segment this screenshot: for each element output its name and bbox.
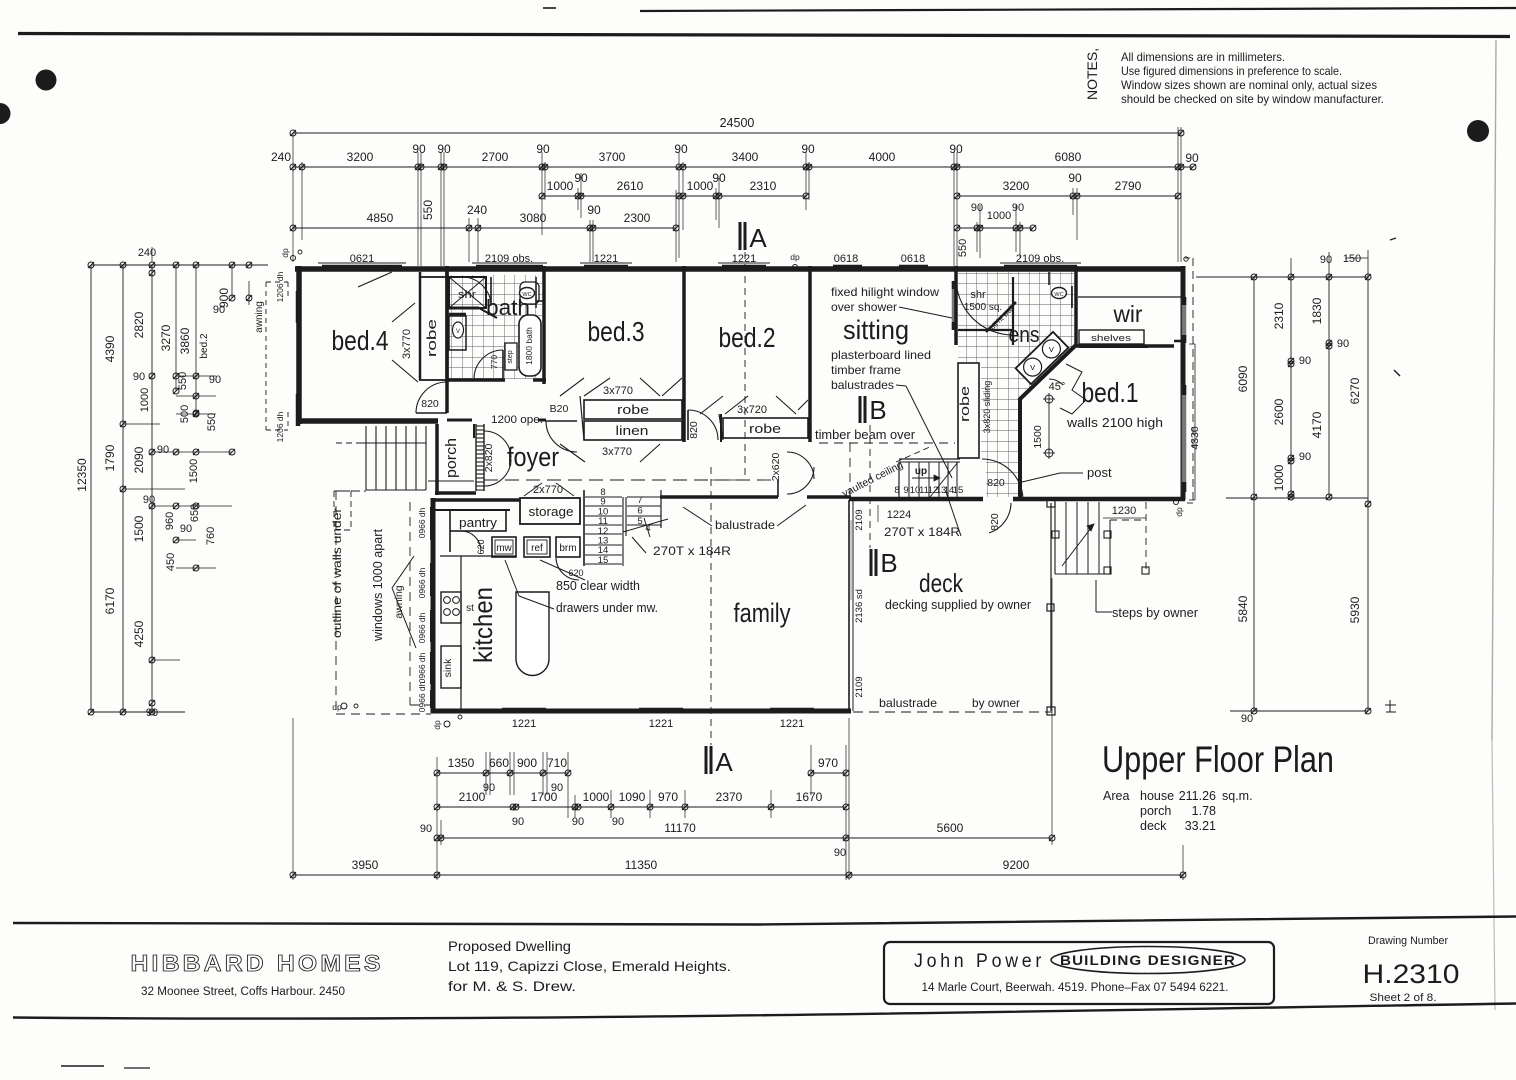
svg-text:A: A [715,747,733,777]
svg-text:1.78: 1.78 [1192,804,1216,818]
pantry [450,510,506,555]
svg-text:2x620: 2x620 [770,453,782,482]
dp top left [280,248,302,260]
deck left wall sliding [849,500,853,711]
svg-text:timber frame: timber frame [831,363,901,377]
svg-text:Sheet 2 of 8.: Sheet 2 of 8. [1370,992,1437,1004]
svg-text:33.21: 33.21 [1185,819,1216,833]
dim row3 left 1000/90/2610 + 1000/90/2310 [539,171,809,199]
stair numbers col2 [637,495,650,537]
svg-text:1000: 1000 [687,179,714,193]
svg-text:B: B [869,395,886,425]
title block bottom line [13,1004,1516,1019]
svg-text:V: V [456,329,460,335]
svg-text:3400: 3400 [732,150,759,164]
svg-text:post: post [1087,465,1112,480]
ens shr labels [964,289,1002,313]
right misc marks [1385,238,1400,712]
ens shower screen diagonal [986,302,1016,333]
svg-text:porch: porch [1140,804,1171,818]
interior stairs [584,490,668,566]
svg-text:0966 dh: 0966 dh [417,652,427,683]
svg-text:A: A [749,223,767,253]
balustrade label mid [683,505,806,532]
svg-text:deck: deck [1140,819,1167,833]
bed.4 door 820 [416,382,447,413]
1230 dim steps [1103,505,1146,518]
svg-text:1221: 1221 [649,718,673,730]
svg-text:should be checked on site by w: should be checked on site by window manu… [1121,93,1384,106]
section mark B upper [860,395,887,425]
awning dashed rect [266,282,288,430]
dp right of steps [1174,500,1185,517]
svg-text:90: 90 [971,202,983,214]
svg-text:3x770: 3x770 [603,385,633,397]
270T x 184R label 1 [632,537,731,558]
window 1221 bed.3 [584,265,628,270]
svg-text:robe: robe [617,402,649,417]
wir shelf line [1078,296,1182,298]
svg-text:1200 ope.: 1200 ope. [491,414,543,426]
window 0621 bed.4 [322,265,402,270]
svg-text:3200: 3200 [1003,179,1030,193]
right chain 6090/5840 [1236,274,1257,714]
svg-text:1000: 1000 [583,790,610,804]
svg-text:2310: 2310 [750,179,777,193]
bed.3 3x770 bottom marks [560,444,660,462]
svg-text:V: V [1030,363,1035,372]
bed.3 door B20 [546,403,577,452]
wir shelves box [1079,330,1148,347]
dp top right corner [1184,257,1188,261]
svg-text:2109: 2109 [854,509,865,530]
svg-text:1830: 1830 [1310,297,1324,324]
svg-text:90: 90 [420,823,432,835]
svg-text:bed.2: bed.2 [719,322,776,353]
4330 dim right [1189,344,1201,500]
right paper edge [1492,40,1496,1010]
svg-text:90: 90 [133,371,145,383]
porch steps [361,426,426,490]
bed.2 robe wall nib [720,414,722,442]
area table [1103,789,1253,833]
post leader [1022,465,1112,482]
deck door 820 [989,503,1011,533]
svg-text:step: step [507,350,514,363]
svg-text:1350: 1350 [448,756,475,770]
family doors 2x620 [770,452,814,497]
left chain connectors [91,262,268,712]
1224 dim label [878,505,911,522]
vanity bath [449,314,466,350]
walls 2100 high note [1060,364,1163,430]
svg-text:0621: 0621 [350,253,374,265]
svg-text:All dimensions are in millimet: All dimensions are in millimeters. [1121,51,1285,64]
svg-text:2136 sd: 2136 sd [854,589,865,623]
svg-text:900: 900 [517,756,537,770]
svg-text:11350: 11350 [625,858,658,872]
ens vanity diagonal [1016,332,1069,384]
left chain 12350 [75,262,94,715]
svg-text:1500 sq.: 1500 sq. [964,302,1002,313]
svg-text:90: 90 [1299,451,1311,463]
svg-text:up: up [915,466,927,477]
wall bed.4/robe [419,272,422,380]
svg-text:house: house [1140,789,1174,803]
kitchen counters [440,556,516,710]
svg-text:9200: 9200 [1003,858,1030,872]
bath south wall [447,378,505,382]
svg-text:3x770: 3x770 [401,329,413,359]
svg-text:dp: dp [432,720,442,730]
right chain 2310/2600/1000 [1272,274,1311,500]
left sub-chains 3270/3860/900 [159,262,252,416]
porch steps dashed landing [334,443,366,530]
dp bottom left [332,702,358,712]
svg-text:960: 960 [164,512,176,530]
svg-text:90: 90 [536,142,550,156]
svg-text:4390: 4390 [103,335,117,362]
bed.2 east wall [808,266,812,442]
svg-text:270T x 184R: 270T x 184R [884,525,960,539]
deck right balustrade [1047,499,1055,715]
bed.1 diagonal wall 45 [1019,344,1077,400]
svg-text:550: 550 [421,200,435,220]
2x770 storage label [524,483,574,496]
bath door bottom [474,350,503,380]
ens lower door 820 [982,459,1023,500]
svg-text:3270: 3270 [159,324,173,351]
bed.4 south wall [297,418,438,424]
svg-text:1000: 1000 [987,210,1011,222]
svg-text:150: 150 [1343,253,1361,265]
svg-text:0966 dh: 0966 dh [417,681,427,712]
bed.3 robe linen boxes [580,396,682,440]
svg-text:1790: 1790 [103,444,117,471]
svg-text:9: 9 [903,485,908,496]
punch hole left-edge [0,103,11,124]
deck top stair [899,459,960,497]
top border line [18,34,1510,37]
top extension lines [293,127,1181,266]
svg-text:12350: 12350 [75,458,89,492]
ref box [524,537,550,557]
svg-text:bed.2: bed.2 [199,333,210,358]
svg-text:0618: 0618 [834,253,858,265]
svg-text:90: 90 [1241,713,1253,725]
bed.1 west wall lower [1018,398,1022,500]
svg-text:32 Moonee Street, Coffs Harbou: 32 Moonee Street, Coffs Harbour. 2450 [141,986,345,998]
svg-text:2370: 2370 [716,790,743,804]
dp bottom mid [432,715,462,730]
svg-text:robe: robe [749,421,781,436]
svg-text:970: 970 [658,790,678,804]
lower band north wall [433,497,851,510]
svg-text:walls 2100 high: walls 2100 high [1066,415,1163,430]
svg-text:90: 90 [143,494,155,506]
svg-text:balustrade: balustrade [715,518,775,532]
bed.1 centerline 1500 [1032,393,1055,459]
shower bath [449,277,497,318]
svg-text:11170: 11170 [664,821,696,835]
svg-text:240: 240 [271,150,291,164]
notes text [1121,51,1384,106]
svg-text:Proposed Dwelling: Proposed Dwelling [448,938,571,954]
svg-text:1206 dh: 1206 dh [275,271,285,302]
bed.3/bed.2 wall [682,266,686,442]
bottom dim row C 2100/1700/1000/1090/970/2370/1670 [434,782,849,828]
project description [448,938,731,994]
svg-text:550: 550 [206,413,218,431]
1206dh awning labels [254,271,285,442]
svg-text:1500: 1500 [1032,425,1044,449]
svg-text:0966 dh: 0966 dh [417,612,427,643]
svg-text:90: 90 [483,782,495,794]
svg-text:90: 90 [801,142,815,156]
bed.4 3x770 marks [358,272,418,382]
porch walls [428,424,476,495]
svg-text:bed.3: bed.3 [588,316,645,347]
svg-text:850 clear width: 850 clear width [556,579,640,593]
svg-text:3950: 3950 [352,858,379,872]
svg-text:V: V [1049,345,1054,354]
svg-text:2300: 2300 [624,211,651,225]
wc oval bath [520,282,539,304]
svg-text:2109 obs.: 2109 obs. [485,253,533,265]
svg-text:fixed hilight window: fixed hilight window [831,285,939,299]
porch entry hatch band [476,424,484,491]
bed.2 3x720 marks [700,396,808,416]
svg-text:270T x 184R: 270T x 184R [653,544,731,558]
svg-text:sitting: sitting [843,315,909,345]
bath east wall [542,266,546,384]
svg-text:BUILDING DESIGNER: BUILDING DESIGNER [1060,953,1236,968]
svg-text:710: 710 [547,756,567,770]
wir/bed.1 wall [1076,344,1174,348]
svg-text:90: 90 [157,444,169,456]
svg-text:WC: WC [1054,292,1063,298]
svg-text:90: 90 [146,707,158,719]
section mark A top [740,222,767,253]
north exterior wall [295,266,1185,272]
svg-text:6170: 6170 [103,587,117,614]
window 2109 obs bath [476,265,543,270]
sink [441,646,461,688]
left 240 label top [138,247,156,262]
svg-text:2610: 2610 [617,179,644,193]
svg-text:HIBBARD HOMES: HIBBARD HOMES [131,950,384,976]
svg-text:3860: 3860 [178,327,192,354]
sitting robe band [957,363,979,458]
left chain 4390/1790/6170 [103,262,126,715]
svg-text:family: family [734,598,791,628]
2109 labels deck wall [854,509,865,697]
stove st [441,592,474,623]
svg-text:3x770: 3x770 [602,446,632,458]
svg-text:90: 90 [587,203,601,217]
corridor dashed line [484,479,778,481]
svg-text:1500: 1500 [132,515,146,542]
svg-text:for M. & S. Drew.: for M. & S. Drew. [448,978,576,994]
svg-text:foyer: foyer [507,442,559,472]
kitchen west exterior wall [431,498,436,713]
ens west wall window hilight [952,281,957,330]
svg-text:outline of walls under: outline of walls under [330,508,344,638]
svg-text:1221: 1221 [512,718,536,730]
bottom dim row D 11170 / 5600 [420,821,1055,859]
John Power designer box [884,942,1274,1004]
svg-text:1221: 1221 [780,718,804,730]
step bath [505,343,517,370]
svg-text:mw: mw [496,543,512,554]
svg-text:shr: shr [970,289,986,301]
svg-text:90: 90 [1337,338,1349,350]
east wall windows wir bed.1 [1182,297,1187,343]
svg-text:balustrade: balustrade [879,696,937,710]
svg-text:90: 90 [1012,202,1024,214]
svg-text:6080: 6080 [1055,150,1082,164]
bottom extension lines [293,578,1183,880]
sitting east wall / ens west [954,266,958,345]
dim row4 right 550/90/1000/90 [954,202,1036,257]
svg-text:2x820: 2x820 [483,444,495,473]
svg-text:0618: 0618 [901,253,925,265]
steps by owner label [1096,580,1198,620]
svg-text:sq.m.: sq.m. [1222,789,1253,803]
top paper edge line [543,8,1516,11]
svg-text:brm: brm [559,543,576,554]
svg-text:240: 240 [138,247,156,259]
850 clear width label [516,557,640,593]
svg-text:storage: storage [529,505,574,519]
window 1221 bed.2 [722,265,766,270]
svg-text:90: 90 [1185,151,1199,165]
svg-text:7: 7 [637,495,642,506]
svg-text:0966 dh: 0966 dh [417,507,427,538]
svg-text:bed.1: bed.1 [1082,377,1139,408]
svg-text:90: 90 [834,847,846,859]
svg-text:760: 760 [205,527,217,545]
svg-text:211.26: 211.26 [1179,789,1216,803]
svg-text:John Power: John Power [914,951,1045,972]
right chain 6270/5930 [1320,253,1371,714]
section mark B lower [871,548,898,578]
svg-text:90: 90 [1068,171,1082,185]
foyer double doors [484,431,511,486]
svg-text:decking supplied by owner: decking supplied by owner [885,598,1031,612]
NOTES heading (rotated) [1084,48,1100,100]
svg-text:770: 770 [489,355,499,369]
svg-text:2310: 2310 [1272,302,1286,329]
svg-text:620: 620 [476,539,486,554]
robe band bed.4 [420,277,447,380]
right chain 1830/4170 [1310,274,1349,500]
svg-text:5: 5 [637,516,642,527]
wir west wall [1074,266,1078,345]
svg-text:robe: robe [424,319,439,357]
svg-text:Window sizes shown are nominal: Window sizes shown are nominal only, act… [1121,79,1377,92]
svg-text:1206 dh: 1206 dh [275,411,285,442]
svg-text:90: 90 [572,816,584,828]
270T x 184R label 2 [884,492,961,539]
svg-text:6270: 6270 [1348,377,1362,404]
svg-text:linen: linen [616,423,649,438]
svg-text:dp: dp [790,252,800,262]
svg-text:45°: 45° [1049,381,1066,393]
svg-text:dp: dp [1174,507,1184,517]
svg-text:timber beam over: timber beam over [815,427,916,442]
svg-text:5600: 5600 [937,821,964,835]
up arrow deck stair [912,466,940,481]
svg-text:deck: deck [919,568,964,598]
svg-text:3x820 sliding: 3x820 sliding [982,381,992,434]
bath tiled floor [449,275,542,379]
kitchen west windows 0966dh [430,507,434,540]
svg-text:1670: 1670 [796,790,823,804]
svg-text:Upper Floor Plan: Upper Floor Plan [1102,739,1334,780]
svg-text:90: 90 [949,142,963,156]
svg-text:970: 970 [818,756,838,770]
deck bottom dashed [853,711,1052,713]
svg-text:awning: awning [393,585,405,618]
svg-text:dp: dp [280,248,290,258]
svg-text:B: B [880,548,897,578]
svg-text:porch: porch [443,438,460,478]
stair numbers col1 [598,487,609,566]
svg-text:Drawing Number: Drawing Number [1368,935,1448,947]
punch hole top-right [1467,120,1489,142]
svg-text:3700: 3700 [599,150,626,164]
svg-text:90: 90 [412,142,426,156]
window labels bottom row [512,718,804,730]
svg-text:NOTES,: NOTES, [1084,48,1100,100]
svg-text:Use figured dimensions in pref: Use figured dimensions in preference to … [1121,65,1342,78]
bed.3 west wall [543,266,545,421]
svg-text:820: 820 [421,398,439,410]
bottom stray dashes [61,1066,150,1068]
punch hole top-left [36,70,57,91]
svg-text:90: 90 [213,304,225,316]
svg-text:drawers under mw.: drawers under mw. [556,601,658,615]
svg-text:4330: 4330 [1189,426,1201,450]
dim row 240/3200/550/2700/3700/3400/4000/6080 [271,142,1199,220]
svg-text:4000: 4000 [869,150,896,164]
section mark A bottom [706,746,733,777]
svg-text:15: 15 [953,485,964,496]
svg-text:90: 90 [1320,254,1332,266]
sitting-family dashed boundary [849,443,851,497]
south wall windows 1221x3 [502,708,546,713]
svg-text:wir: wir [1113,301,1143,327]
bed.2 door 820 [688,410,718,440]
ens door top [956,278,1013,335]
bath door top [462,277,491,306]
svg-text:pantry: pantry [459,516,498,530]
svg-text:bed.4: bed.4 [332,325,389,356]
svg-text:6090: 6090 [1236,365,1250,392]
svg-text:2090: 2090 [132,446,146,473]
svg-text:90: 90 [180,523,192,535]
bottom dim row B 1350/660/900/710 + 970 [434,756,849,776]
svg-text:0966 dh: 0966 dh [417,567,427,598]
right house dashed outline [1185,258,1193,503]
svg-text:ref: ref [531,543,543,554]
svg-text:90: 90 [674,142,688,156]
svg-text:windows 1000 apart: windows 1000 apart [371,528,385,642]
svg-text:B20: B20 [550,403,569,415]
svg-text:90: 90 [551,782,563,794]
svg-text:2109 obs.: 2109 obs. [1016,253,1064,265]
